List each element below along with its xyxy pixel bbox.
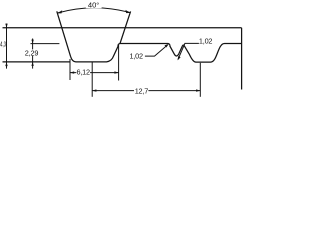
arrowhead 4,3 top (outside, pointing down) xyxy=(5,24,7,28)
groove bottom extension line (left) xyxy=(3,61,71,63)
arrowhead 6,12 left xyxy=(70,71,74,73)
4,3 dimension line xyxy=(6,24,8,69)
arrowhead 4,3 bottom (outside, pointing up) xyxy=(5,62,7,66)
6,12 right extension line xyxy=(118,45,120,81)
arrowhead leader left 1,02 (pointing up-right) xyxy=(165,44,169,48)
arrowhead leader right 1,02 (pointing down-left) xyxy=(178,56,181,60)
profile contour: groove1 bottom, land, notch, groove2, right land xyxy=(71,44,242,63)
land level extension line (2,29 reference) xyxy=(31,43,60,45)
arrowhead 40deg left end of arc xyxy=(57,10,62,13)
arrowhead 6,12 right xyxy=(114,71,118,73)
arrowhead 2,29 bottom (outside, pointing up) xyxy=(31,62,33,66)
12,7 left extension line xyxy=(91,63,93,97)
svg-text:2,29: 2,29 xyxy=(25,48,39,57)
12,7 dimension line xyxy=(92,90,200,92)
svg-text:1,02: 1,02 xyxy=(199,37,213,46)
arrowhead 2,29 top (outside, pointing down) xyxy=(31,40,33,44)
left flank of groove 1 xyxy=(57,11,71,56)
text 6,12 xyxy=(76,70,90,76)
arrowhead 40deg right end of arc xyxy=(125,10,130,13)
leader line for right 1,02 xyxy=(178,43,199,59)
6,12 left extension line xyxy=(69,59,71,80)
12,7 right extension line xyxy=(199,63,201,97)
6,12 dimension line xyxy=(70,72,119,74)
text 40deg with white backing xyxy=(86,1,102,9)
2,29 dimension line xyxy=(32,39,34,69)
top rim / datum line xyxy=(3,27,242,29)
svg-text:4,3: 4,3 xyxy=(0,42,6,49)
svg-text:12,7: 12,7 xyxy=(135,86,149,95)
leader line for left 1,02 xyxy=(145,45,168,56)
arrowhead 12,7 right xyxy=(196,89,200,91)
svg-text:6,12: 6,12 xyxy=(76,68,90,77)
40 deg dimension arc xyxy=(57,8,130,13)
right flank of groove 1 (extends above land to 40deg arc) xyxy=(120,11,131,43)
right break edge xyxy=(241,28,243,90)
text 12,7 xyxy=(134,87,148,94)
svg-text:40°: 40° xyxy=(88,0,99,9)
text 2,29 xyxy=(25,49,40,55)
svg-text:1,02: 1,02 xyxy=(129,52,143,61)
arrowhead 12,7 left xyxy=(92,89,96,91)
